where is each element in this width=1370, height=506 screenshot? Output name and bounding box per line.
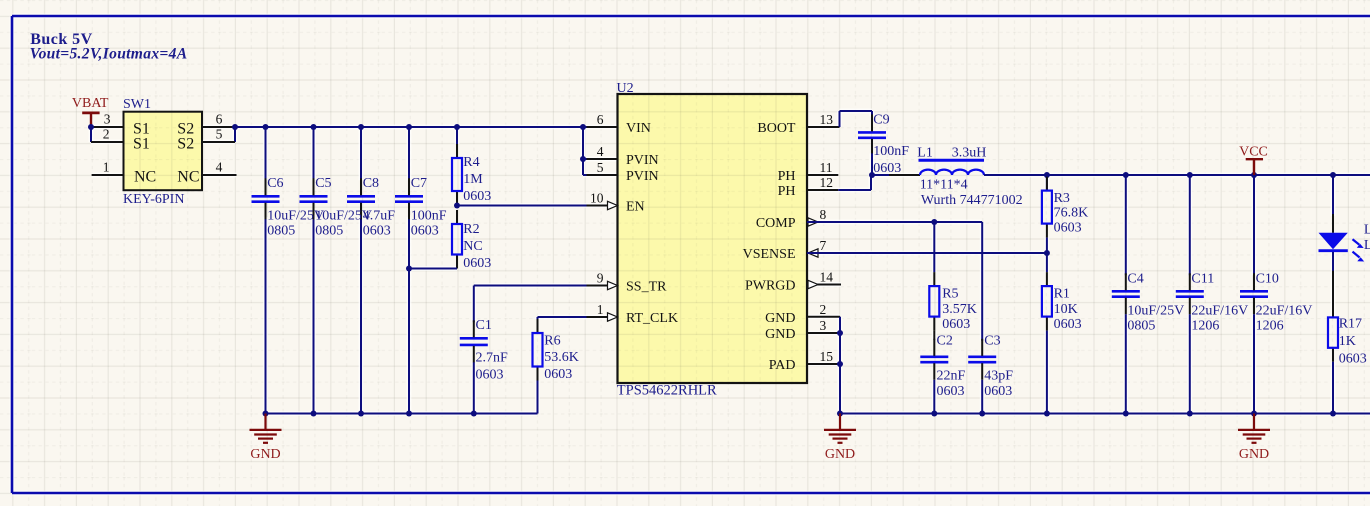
svg-text:S2: S2 [177,136,194,153]
svg-text:PAD: PAD [769,358,796,373]
svg-text:7: 7 [820,238,827,253]
label C1 text [476,318,509,382]
wire C7 upper column [408,127,410,180]
svg-text:VCC: VCC [1239,145,1268,160]
U2 pin 14 stub [807,284,841,286]
svg-text:0805: 0805 [315,224,343,239]
svg-text:L1: L1 [917,145,933,160]
junction R4 top node [454,124,460,130]
svg-text:0603: 0603 [463,189,491,204]
svg-text:PWRGD: PWRGD [745,279,796,294]
wire C10 upper column [1253,175,1255,275]
svg-text:3: 3 [820,318,827,333]
junction C4 bottom node [1123,411,1129,417]
SW1 pin 5 [202,141,235,143]
junction VCC/C10 top node [1251,172,1257,178]
wire R5 top link [933,222,935,272]
SW1 pin 4 [202,174,237,176]
svg-text:S1: S1 [133,136,150,153]
svg-text:NC: NC [177,169,199,186]
svg-text:R4: R4 [463,155,479,170]
U2 pin 12 stub [807,189,838,191]
LED D1 symbol [1319,214,1365,262]
resistor R4 [452,144,462,205]
junction C11 top node [1187,172,1193,178]
junction C3 bottom node [979,411,985,417]
label C10 text [1256,272,1313,334]
junction C2 bottom node [931,411,937,417]
junction C6 top node [263,124,269,130]
svg-text:RT_CLK: RT_CLK [626,311,678,326]
svg-text:R6: R6 [544,334,560,349]
svg-text:9: 9 [597,271,604,286]
wire C5 upper column [313,127,315,180]
U2 pin 14 output arrow [808,280,818,288]
wire LED upper column [1332,175,1334,216]
U2 pin 8 output arrow [808,218,818,226]
svg-text:U2: U2 [617,81,634,96]
svg-text:6: 6 [216,112,223,127]
svg-text:0603: 0603 [463,256,491,271]
svg-text:R1: R1 [1054,287,1070,302]
svg-text:0603: 0603 [476,367,504,382]
svg-text:C1: C1 [476,318,492,333]
wire RT_CLK net horizontal [538,316,618,318]
junction VSENSE-R3-R1 node [1044,250,1050,256]
power symbol VCC [1239,145,1268,176]
svg-text:4: 4 [216,160,223,175]
svg-text:GND: GND [250,447,280,462]
resistor R3 [1042,177,1052,238]
junction SW1 output node [232,124,238,130]
label R1 text [1054,287,1082,332]
svg-text:0603: 0603 [363,224,391,239]
junction R17 bottom node [1330,411,1336,417]
svg-text:1206: 1206 [1256,319,1284,334]
label C6 text [267,176,324,239]
junction U2-gnd bottom node [837,411,843,417]
wire C8 upper column [360,127,362,180]
junction C7-R2 node [406,266,412,272]
junction R3 top node [1044,172,1050,178]
wire C1 upper column [473,286,475,323]
wire R3 bottom link [1046,238,1048,253]
label C11 text [1191,272,1248,334]
U2 pin 3 stub [807,332,840,334]
wire pin4 link [583,158,618,160]
junction VBAT node [88,124,94,130]
U2 pin 1 stub [587,316,618,318]
svg-text:Vout=5.2V,Ioutmax=4A: Vout=5.2V,Ioutmax=4A [30,45,188,62]
svg-text:0805: 0805 [267,224,295,239]
svg-text:0603: 0603 [1054,317,1082,332]
wire C11 upper column [1189,175,1191,275]
svg-text:1M: 1M [463,172,483,187]
svg-text:1: 1 [597,302,604,317]
svg-text:3.57K: 3.57K [942,302,977,317]
label C8 text [363,176,396,239]
junction U2 pin3 node [837,330,843,336]
wire R3 top link [1046,175,1048,191]
resistor R17 [1328,303,1338,361]
svg-text:10K: 10K [1054,302,1078,317]
svg-text:22uF/16V: 22uF/16V [1256,303,1313,318]
SW1 pin 1 [92,174,124,176]
svg-text:PH: PH [778,169,796,184]
svg-text:0603: 0603 [942,317,970,332]
svg-text:LED5: LED5 [1364,223,1370,238]
wire C1 lower column [473,362,475,413]
svg-text:0603: 0603 [984,384,1012,399]
junction R4-R2-EN node [454,203,460,209]
junction PH-C9 node [869,172,875,178]
label C5 text [315,176,372,239]
capacitor C7 [395,178,423,219]
svg-text:SW1: SW1 [123,97,151,112]
svg-text:GND: GND [765,327,795,342]
svg-text:C11: C11 [1191,272,1214,287]
svg-text:R5: R5 [942,287,958,302]
wire C3 upper column [981,222,983,341]
U2 pin 8 stub [807,221,838,223]
wire R17 bottom link [1332,362,1334,414]
svg-text:2: 2 [103,127,110,142]
wire C6 lower column [265,217,267,413]
svg-text:VSENSE: VSENSE [743,247,796,262]
svg-text:C5: C5 [315,176,331,191]
svg-text:100nF: 100nF [873,144,909,159]
U2 pin 5 stub [587,174,618,176]
wire EN net [457,205,618,207]
wire left ground rail [266,413,538,415]
wire C11 lower column [1189,314,1191,413]
svg-text:53.6K: 53.6K [544,350,579,365]
power symbol GND middle [824,414,856,462]
wire C5 lower column [313,217,315,413]
svg-text:LED: LED [1364,238,1370,253]
junction pin4 branch node [580,156,586,162]
svg-text:0603: 0603 [873,161,901,176]
label C9 text [873,112,909,176]
svg-text:VIN: VIN [626,121,651,136]
junction C10/GND bottom node [1251,411,1257,417]
svg-text:5: 5 [216,127,223,142]
LED to R17 link [1332,271,1334,318]
SW1 pin 6 [202,126,235,128]
wire SW1 pin6 to pin5 tie [234,127,236,142]
resistor R2 [452,210,462,269]
wire C3 bottom link [981,380,983,414]
label R3 text [1054,191,1089,236]
label R5 text [942,287,977,332]
svg-text:43pF: 43pF [984,368,1013,383]
wire SS_TR net horizontal [474,285,618,287]
resistor R5 [929,272,939,331]
svg-text:NC: NC [134,169,156,186]
wire VSENSE net horizontal [807,252,1047,254]
wire pin5 link [583,174,618,176]
svg-text:0805: 0805 [1127,319,1155,334]
svg-text:0603: 0603 [1339,351,1367,366]
svg-text:C3: C3 [984,334,1000,349]
wire U2 ground down-link [839,317,841,414]
junction LED top node [1330,172,1336,178]
R5-C2 link [933,331,935,340]
U2 pin 6 stub [587,126,618,128]
svg-text:VBAT: VBAT [72,96,109,111]
svg-text:PVIN: PVIN [626,169,659,184]
U2 pin 1 input arrow [608,313,618,321]
svg-text:SS_TR: SS_TR [626,280,667,295]
capacitor C5 [300,178,328,219]
power symbol GND left [250,414,282,462]
U2 pin2-pin3 bend [839,317,841,333]
svg-text:0603: 0603 [411,224,439,239]
wire VCC rail [984,174,1370,176]
svg-text:22uF/16V: 22uF/16V [1191,303,1248,318]
svg-text:R17: R17 [1339,316,1362,331]
U2 pin 2 stub [807,316,840,318]
wire BOOT top horizontal [840,110,873,112]
svg-text:GND: GND [1239,447,1269,462]
svg-text:11*11*4: 11*11*4 [920,177,968,192]
svg-text:6: 6 [597,112,604,127]
svg-text:5: 5 [597,160,604,175]
svg-text:1: 1 [103,160,110,175]
label R17 text [1339,316,1367,366]
svg-text:GND: GND [825,447,855,462]
junction C1 bottom node [471,411,477,417]
svg-text:C2: C2 [937,334,953,349]
svg-text:C4: C4 [1127,272,1143,287]
wire LED cathode link [1332,252,1334,271]
svg-text:PVIN: PVIN [626,153,659,168]
wire C7 lower column [408,217,410,413]
U2 pin 9 input arrow [608,281,618,289]
junction C6 bottom node [263,411,269,417]
power symbol GND right [1238,414,1270,462]
wire VIN rail [235,126,618,128]
wire R1 bottom link [1046,331,1048,414]
wire pin12 link [838,189,871,191]
wire C8 lower column [360,217,362,413]
junction C8 top node [358,124,364,130]
wire C6 upper column [265,127,267,180]
wire R6 bottom link [537,381,539,414]
U2 pin 4 stub [587,158,618,160]
U2 pin 7 stub [807,252,838,254]
label R6 text [544,334,579,383]
wire PH net to inductor [872,174,920,176]
svg-text:14: 14 [820,270,834,285]
junction U2 pin15 node [837,361,843,367]
junction pin6 branch node [580,124,586,130]
wire R2 bottom link [456,268,458,270]
junction R1 bottom node [1044,411,1050,417]
U2 pin 11 stub [807,174,838,176]
U2 pin 15 stub [807,363,840,365]
wire BOOT bend up [839,111,841,127]
junction C4 top node [1123,172,1129,178]
wire R4 top link [456,127,458,144]
junction C5 top node [311,124,317,130]
svg-text:76.8K: 76.8K [1054,206,1089,221]
svg-text:C10: C10 [1256,272,1279,287]
SW1 pin 3 [91,126,124,128]
svg-text:3.3uH: 3.3uH [952,145,987,160]
wire COMP net horizontal [807,221,982,223]
wire C4 upper column [1125,175,1127,275]
wire R1 top link [1046,253,1048,272]
svg-text:4: 4 [597,144,604,159]
capacitor C6 [252,178,280,219]
svg-text:TPS54622RHLR: TPS54622RHLR [617,382,717,398]
svg-text:8: 8 [820,207,827,222]
SW1 pin 2 [91,141,124,143]
svg-text:COMP: COMP [756,216,796,231]
capacitor C10 [1240,273,1268,314]
svg-text:1K: 1K [1339,334,1356,349]
U2 pin 10 input arrow [608,201,618,209]
svg-text:100nF: 100nF [411,209,447,224]
junction C7 bottom node [406,411,412,417]
svg-text:KEY-6PIN: KEY-6PIN [123,192,184,207]
svg-text:0603: 0603 [937,384,965,399]
wire SW1 pin3 to pin2 tie [90,127,92,142]
svg-text:Wurth 744771002: Wurth 744771002 [921,193,1023,208]
capacitor C4 [1112,273,1140,314]
switch SW1 body [124,112,203,191]
wire pin12 bend [870,175,872,190]
svg-text:NC: NC [463,239,482,254]
svg-text:3: 3 [104,112,111,127]
svg-text:C9: C9 [873,112,889,127]
junction C7 top node [406,124,412,130]
junction COMP-R5 node [931,219,937,225]
label C4 text [1127,272,1184,334]
svg-text:15: 15 [820,349,834,364]
junction C11 bottom node [1187,411,1193,417]
label R4 text [463,155,491,204]
svg-text:R3: R3 [1054,191,1070,206]
svg-text:PH: PH [778,184,796,199]
label C3 text [984,334,1013,400]
svg-text:10uF/25V: 10uF/25V [1127,303,1184,318]
svg-text:13: 13 [820,112,834,127]
junction C8 bottom node [358,411,364,417]
U2 pin 10 stub [587,205,618,207]
U2 pin 7 input arrow [808,249,818,257]
svg-text:R2: R2 [463,222,479,237]
svg-text:BOOT: BOOT [757,121,796,136]
junction C5 bottom node [311,411,317,417]
svg-text:GND: GND [765,311,795,326]
svg-text:10: 10 [590,191,604,206]
op-amp U2 body (TPS54622RHLR) [618,94,808,383]
wire C2 bottom link [933,380,935,414]
svg-text:C7: C7 [411,176,427,191]
wire R6 top link [537,317,539,319]
resistor R1 [1042,272,1052,331]
svg-text:2.7nF: 2.7nF [476,351,509,366]
capacitor C9 [858,114,886,155]
label C2 text [937,334,966,400]
svg-text:C8: C8 [363,176,379,191]
wire C10 lower column [1253,314,1255,413]
svg-text:2: 2 [820,302,827,317]
svg-text:12: 12 [820,175,834,190]
power symbol VBAT [72,96,109,127]
inductor L1 [889,160,1015,175]
wire pin6 branch vertical [582,127,584,175]
wire C9 top link [871,111,873,116]
wire C9 bottom link [871,153,873,175]
svg-text:EN: EN [626,200,645,215]
label R2 text [463,222,491,271]
svg-text:0603: 0603 [1054,221,1082,236]
capacitor C8 [347,178,375,219]
capacitor C1 [460,320,488,362]
capacitor C11 [1176,273,1204,314]
U2 pin 13 stub [807,126,840,128]
capacitor C3 [968,339,996,380]
svg-text:C6: C6 [267,176,283,191]
resistor R6 [533,319,543,381]
svg-text:22nF: 22nF [937,368,966,383]
wire R2 to C7 column [409,268,457,270]
svg-text:0603: 0603 [544,367,572,382]
capacitor C2 [920,339,948,380]
U2 pin 9 stub [587,285,618,287]
svg-text:11: 11 [820,160,833,175]
wire right ground rail [840,413,1370,415]
svg-text:1206: 1206 [1191,319,1219,334]
wire C4 lower column [1125,314,1127,413]
label C7 text [411,176,447,239]
svg-text:4.7uF: 4.7uF [363,209,396,224]
